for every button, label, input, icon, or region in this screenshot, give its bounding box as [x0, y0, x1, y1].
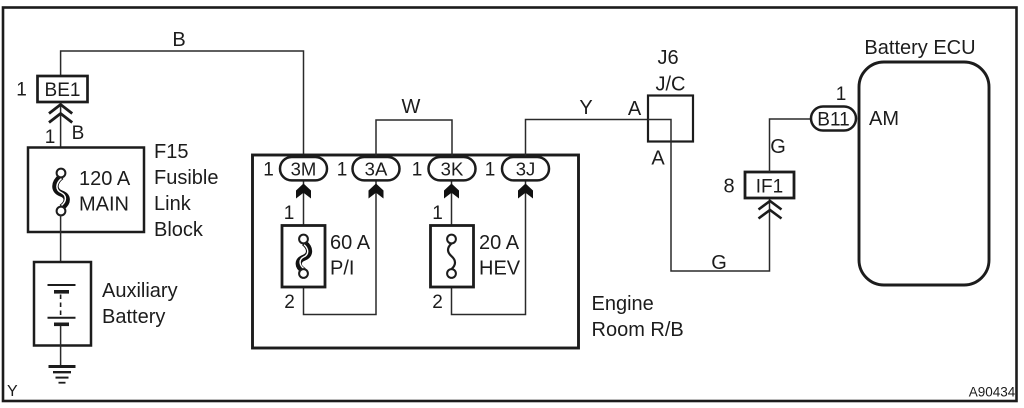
- wire (3K to fuse 20A): [451, 180, 453, 235]
- ground: [49, 367, 76, 383]
- wire G (IF1 to B11): [770, 119, 813, 172]
- svg-text:Link: Link: [154, 193, 192, 215]
- svg-text:F15: F15: [154, 141, 188, 163]
- svg-text:20 A: 20 A: [479, 232, 520, 254]
- svg-text:2: 2: [432, 292, 443, 313]
- svg-text:W: W: [402, 96, 421, 118]
- svg-text:J6: J6: [657, 47, 678, 69]
- arrow (3J): [518, 184, 533, 199]
- arrow (3K): [444, 184, 459, 199]
- svg-text:3J: 3J: [516, 158, 536, 179]
- value label 20 A HEV: [479, 232, 521, 280]
- svg-text:8: 8: [723, 176, 734, 198]
- label Engine Room R/B: [592, 293, 684, 341]
- svg-text:1: 1: [836, 84, 847, 105]
- svg-text:AM: AM: [869, 108, 899, 130]
- svg-text:1: 1: [45, 127, 56, 148]
- svg-text:P/I: P/I: [330, 258, 354, 280]
- wire A (through J6 down and along bottom, net G, to IF1): [648, 120, 770, 272]
- svg-text:BE1: BE1: [45, 80, 81, 101]
- connector 3J: [502, 157, 549, 180]
- svg-text:A: A: [651, 148, 665, 170]
- fuse 60 A P/I: [282, 226, 325, 288]
- wire (fuse 20A pin2 to 3J): [452, 180, 526, 315]
- svg-text:B11: B11: [817, 109, 849, 130]
- svg-text:B: B: [72, 123, 85, 144]
- svg-text:120 A: 120 A: [79, 168, 131, 190]
- connector IF1: [745, 172, 794, 198]
- svg-text:J/C: J/C: [656, 74, 686, 96]
- ECU Battery ECU: [859, 62, 989, 285]
- svg-text:B: B: [172, 29, 185, 51]
- svg-text:Room R/B: Room R/B: [592, 319, 684, 341]
- svg-text:G: G: [770, 136, 786, 158]
- svg-text:Auxiliary: Auxiliary: [102, 280, 178, 302]
- svg-text:Y: Y: [579, 97, 592, 119]
- svg-text:1: 1: [337, 160, 348, 181]
- svg-text:1: 1: [412, 160, 423, 181]
- svg-text:IF1: IF1: [756, 177, 783, 198]
- fusible link block F15: [28, 148, 144, 233]
- label Auxiliary Battery: [102, 280, 178, 328]
- fuse element 120 A MAIN: [55, 169, 66, 216]
- svg-text:HEV: HEV: [479, 258, 521, 280]
- connector B11: [811, 107, 856, 131]
- svg-text:1: 1: [284, 203, 295, 224]
- wire (fuse 60A pin2 to 3A): [304, 180, 377, 315]
- junction block J6 J/C: [648, 96, 693, 142]
- svg-text:3K: 3K: [441, 158, 464, 179]
- wire (3M to fuse 60A): [303, 180, 305, 235]
- connector 3M: [280, 157, 327, 180]
- svg-text:1: 1: [485, 160, 496, 181]
- fuse 20 A HEV: [431, 226, 474, 288]
- connector symbol (below BE1): [49, 105, 72, 123]
- arrow (3A): [369, 184, 384, 199]
- connector symbol (below IF1): [759, 201, 782, 219]
- value label 60 A P/I: [330, 232, 371, 280]
- svg-text:3A: 3A: [365, 158, 388, 179]
- block Engine Room R/B: [253, 155, 579, 348]
- battery Auxiliary Battery: [34, 262, 91, 346]
- wire (BE1 to fusible link): [60, 102, 62, 169]
- svg-text:1: 1: [432, 203, 443, 224]
- svg-text:Battery ECU: Battery ECU: [864, 37, 975, 59]
- svg-text:Fusible: Fusible: [154, 167, 218, 189]
- svg-text:MAIN: MAIN: [79, 194, 129, 216]
- wire (battery to ground): [60, 326, 62, 366]
- wire Y (3J to J6): [526, 120, 649, 158]
- svg-text:Engine: Engine: [592, 293, 654, 315]
- connector BE1: [38, 76, 88, 102]
- svg-text:Y: Y: [7, 383, 18, 400]
- connector 3A: [353, 157, 400, 180]
- svg-text:1: 1: [263, 160, 274, 181]
- svg-text:A90434: A90434: [969, 385, 1016, 400]
- svg-text:3M: 3M: [291, 158, 317, 179]
- label F15 Fusible Link Block: [154, 141, 218, 241]
- svg-text:60 A: 60 A: [330, 232, 371, 254]
- value label 120 A MAIN: [79, 168, 131, 216]
- wire W (3A to 3K): [376, 120, 452, 158]
- wire (fusible link to battery): [60, 215, 62, 285]
- svg-text:A: A: [628, 98, 642, 120]
- svg-text:1: 1: [16, 80, 27, 101]
- arrow (3M): [296, 184, 311, 199]
- svg-text:2: 2: [284, 292, 295, 313]
- label J6 J/C: [656, 47, 686, 96]
- wire B (BE1 top to connector 3M): [61, 51, 304, 158]
- connector 3K: [429, 157, 476, 180]
- svg-text:G: G: [711, 252, 727, 274]
- svg-text:Battery: Battery: [102, 306, 165, 328]
- svg-text:Block: Block: [154, 219, 204, 241]
